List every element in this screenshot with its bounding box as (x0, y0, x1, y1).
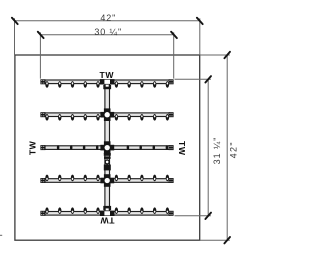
svg-text:30 ¼": 30 ¼" (94, 27, 122, 37)
svg-text:42": 42" (100, 13, 116, 23)
svg-text:31 ¼": 31 ¼" (212, 137, 222, 165)
svg-text:TW: TW (27, 140, 37, 155)
svg-text:TW: TW (100, 215, 115, 225)
svg-text:TW: TW (99, 70, 114, 80)
svg-text:42": 42" (229, 141, 239, 158)
svg-text:TW: TW (177, 141, 187, 156)
